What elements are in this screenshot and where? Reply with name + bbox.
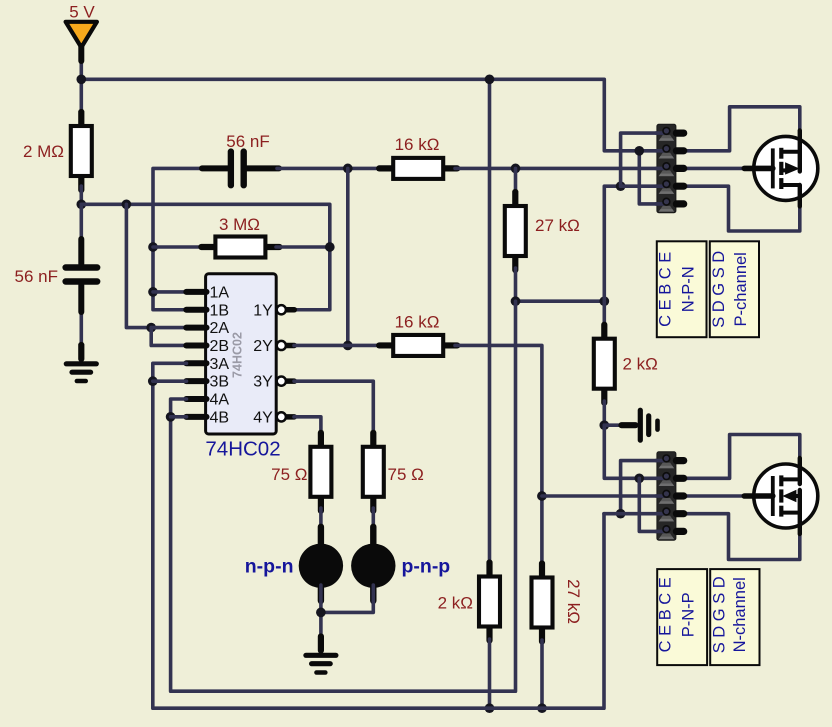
info box SDGSD N-channel: [710, 569, 759, 665]
terminal J2 cell 5: [659, 526, 684, 539]
wire to pin 2A: [151, 326, 186, 330]
wire 27k mid top lead: [514, 168, 518, 194]
wire 5V rail top: [81, 79, 657, 151]
wire to top terminal pin4: [621, 184, 658, 188]
wire x604 up to top terminal pins1/4: [604, 186, 620, 301]
terminal J1 cell 5: [659, 198, 684, 211]
svg-text:2B: 2B: [210, 338, 230, 355]
wire 75ohm to pnp: [371, 508, 375, 547]
svg-text:S D G S D: S D G S D: [710, 251, 728, 328]
wire bottom MOSFET source path: [686, 514, 800, 560]
svg-text:4Y: 4Y: [253, 409, 273, 426]
wire 3M left lead: [153, 245, 205, 249]
IC U1 pin stub 1A: [186, 291, 206, 293]
svg-text:16 kΩ: 16 kΩ: [395, 313, 440, 332]
IC U1 pin stub 1B: [186, 309, 206, 311]
wire 3M right to 1Y column: [276, 245, 330, 249]
wire long to bottom terminal pin3: [542, 494, 658, 498]
svg-text:p-n-p: p-n-p: [402, 556, 451, 578]
wire outer loop to 3A: [153, 363, 604, 708]
svg-text:P-channel: P-channel: [732, 252, 750, 326]
resistor R8 75ohm right: [363, 433, 384, 511]
terminal J2 cell 3: [659, 490, 684, 503]
info box CEBCE PNP: [656, 569, 707, 665]
svg-text:27 kΩ: 27 kΩ: [564, 579, 583, 624]
svg-text:S D G S D: S D G S D: [710, 576, 728, 653]
node 2A junction: [146, 323, 156, 333]
svg-text:16 kΩ: 16 kΩ: [395, 135, 440, 154]
wire top MOSFET gate path: [686, 167, 746, 171]
svg-text:2 kΩ: 2 kΩ: [623, 355, 658, 374]
svg-text:1B: 1B: [210, 302, 230, 319]
wire 5V drop column x489: [488, 79, 492, 564]
wire branch x126 down to 2A/2B: [126, 204, 151, 327]
IC U1 pin stub 2A: [186, 327, 206, 329]
resistor R9 2k bottom: [479, 563, 500, 641]
wire stubs into J2: [656, 461, 665, 532]
svg-text:2 MΩ: 2 MΩ: [23, 142, 64, 161]
resistor R6 2k right: [594, 325, 615, 403]
node bottom terminal pin4 junction: [616, 509, 626, 519]
wire y301 row: [516, 299, 605, 303]
IC U1 pin stub 4B: [186, 416, 206, 418]
wire 2k right bottom: [602, 401, 606, 425]
node 4B junction: [166, 412, 176, 422]
wire feedback row y204 to 1Y column: [81, 204, 329, 309]
IC U1 74HC02 body: [206, 274, 277, 434]
capacitor C1 56nF vertical: [66, 204, 98, 346]
wire 2k right top lead: [602, 301, 606, 330]
svg-text:56 nF: 56 nF: [226, 132, 269, 151]
wire pnp emitter to node: [321, 585, 373, 612]
node 3M left: [148, 242, 158, 252]
wire 27k mid bottom: [514, 268, 518, 301]
capacitor C2 56nF horizontal: [202, 149, 279, 188]
wire 4Y to 75ohm left: [294, 417, 321, 432]
info box SDGSD P-channel: [710, 241, 759, 337]
terminal J2 cell 1: [659, 455, 684, 468]
node 16k1/27k top: [511, 164, 521, 174]
svg-text:N-P-N: N-P-N: [679, 266, 697, 312]
svg-text:4A: 4A: [210, 392, 230, 409]
ground below transistors: [306, 637, 336, 673]
MOSFET M1 P-channel: [744, 130, 818, 206]
wire bottom MOSFET drain path: [686, 435, 800, 479]
terminal J2 cell 2: [659, 473, 684, 486]
node 3B junction: [148, 376, 158, 386]
node on outer line left: [485, 703, 495, 713]
IC U1 output pin 1Y: [277, 305, 295, 314]
svg-text:2A: 2A: [210, 320, 230, 337]
wire 16k out to terminal pin3: [455, 167, 657, 171]
svg-text:n-p-n: n-p-n: [245, 556, 294, 578]
IC U1 pin stub 3A: [186, 362, 206, 364]
terminal J2 cell 4: [659, 508, 684, 521]
IC U1 output pin 2Y: [277, 341, 295, 350]
svg-text:74HC02: 74HC02: [205, 438, 280, 461]
node rail x489: [485, 74, 495, 84]
node 3M right junction: [325, 242, 335, 252]
wire to top terminal pin1: [621, 133, 658, 186]
svg-text:3 MΩ: 3 MΩ: [219, 215, 260, 234]
ground right rotated: [622, 410, 658, 440]
svg-text:P-N-P: P-N-P: [679, 592, 697, 637]
wire top MOSFET drain path: [686, 107, 800, 151]
svg-text:5 V: 5 V: [69, 3, 95, 22]
svg-text:4B: 4B: [210, 409, 230, 426]
node on outer line right: [537, 703, 547, 713]
svg-text:3B: 3B: [210, 374, 230, 391]
svg-text:1A: 1A: [210, 284, 230, 301]
wire inner loop to 4A: [171, 301, 516, 691]
wire top MOSFET source path: [686, 186, 800, 231]
wire 3Y to 75ohm right: [294, 381, 373, 432]
wire npn emitter to ground: [319, 585, 323, 640]
svg-text:C E B C E: C E B C E: [656, 252, 674, 327]
wire net-A vertical x153: [153, 168, 204, 309]
svg-text:75 Ω: 75 Ω: [388, 465, 424, 484]
node below 2M: [76, 199, 86, 209]
ground below C1: [66, 345, 96, 381]
IC U1 pin stub 4A: [186, 398, 206, 400]
wire pin4 row bottom terminal: [604, 512, 657, 516]
wire 2k bottom to outer line: [488, 639, 492, 708]
terminal block J2 bottom: [657, 452, 676, 541]
resistor R10 27k bottom: [532, 564, 553, 642]
terminal block J1 top: [657, 124, 676, 212]
terminal J1 cell 1: [659, 128, 684, 141]
wire to right ground: [604, 423, 621, 427]
svg-text:C E B C E: C E B C E: [656, 577, 674, 652]
svg-text:75 Ω: 75 Ω: [271, 465, 307, 484]
node emitter junction: [316, 608, 326, 618]
MOSFET M2 N-channel: [744, 458, 818, 534]
wire down to bottom terminal pin2: [604, 425, 657, 478]
info box CEBCE NPN: [656, 241, 706, 337]
node y301 left: [511, 296, 521, 306]
node top terminal pin4 junction: [616, 181, 626, 191]
wire to pin 1A: [153, 290, 187, 294]
resistor R2 3M: [201, 237, 279, 258]
resistor R3 16k top: [379, 158, 457, 179]
IC U1 output pin 4Y: [277, 412, 295, 421]
IC U1 pin stub 2B: [186, 344, 206, 346]
wire bottom MOSFET gate path: [686, 494, 746, 498]
wire C2 right to 16k: [277, 167, 382, 171]
node bottom terminal pin2 junction: [634, 473, 644, 483]
svg-text:N-channel: N-channel: [731, 577, 749, 652]
transistor Q2 pnp: [351, 527, 395, 601]
svg-text:2 kΩ: 2 kΩ: [438, 594, 473, 613]
terminal J1 cell 2: [659, 145, 684, 158]
resistor R5 27k middle: [505, 192, 526, 270]
wire to pin 2B: [151, 328, 186, 346]
wire to pin 4B: [171, 415, 187, 419]
wire 2Y to 16k2: [294, 344, 382, 348]
node y301 right: [599, 296, 609, 306]
svg-text:74HC02: 74HC02: [231, 332, 245, 378]
resistor R1 2M: [71, 112, 92, 190]
svg-text:27 kΩ: 27 kΩ: [535, 216, 580, 235]
wire to pin 3B: [153, 379, 187, 383]
node at 2Y wire: [343, 341, 353, 351]
svg-text:3Y: 3Y: [253, 374, 273, 391]
svg-text:1Y: 1Y: [253, 302, 273, 319]
wire rail branch to terminal pin5 top: [639, 151, 657, 204]
wire to bottom terminal pin5: [639, 478, 657, 531]
node 2k/ground junction: [599, 420, 609, 430]
wire 75ohm to npn: [319, 508, 323, 547]
wire stubs into J1: [656, 133, 665, 204]
wire 2M bottom to node: [80, 186, 84, 204]
power 5V supply triangle: [66, 22, 97, 48]
IC U1 output pin 3Y: [277, 377, 295, 386]
svg-text:3A: 3A: [210, 356, 230, 373]
node 1A junction: [148, 287, 158, 297]
node C2/16k junction: [343, 164, 353, 174]
svg-text:2Y: 2Y: [253, 338, 273, 355]
wire 56nF/16k node down to 2Y: [346, 168, 350, 345]
terminal J1 cell 3: [659, 163, 684, 176]
wire bottom terminal pin1 down: [621, 461, 658, 514]
node 5V junction: [76, 74, 86, 84]
wire 5V to 2M resistor: [80, 58, 84, 116]
wire 16k2 out to 27k bottom column: [455, 345, 542, 564]
terminal J1 cell 4: [659, 181, 684, 194]
wire 27k bottom to outer line: [540, 640, 544, 708]
resistor R7 75ohm left: [310, 433, 331, 511]
transistor Q1 npn: [299, 527, 343, 601]
svg-text:56 nF: 56 nF: [15, 267, 58, 286]
node y204 branch: [122, 199, 132, 209]
node rail/pin2 junction: [634, 146, 644, 156]
resistor R4 16k lower: [379, 335, 457, 356]
IC U1 pin stub 3B: [186, 380, 206, 382]
node 27k/pin3 junction: [537, 491, 547, 501]
